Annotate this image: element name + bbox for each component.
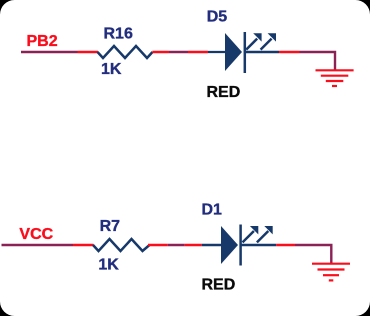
LED D5 light arrow 2 shaft [261, 39, 272, 50]
LED D5 anode pin stub [188, 51, 208, 53]
ground (top circuit) [316, 70, 354, 86]
LED D5 triangle [225, 33, 242, 71]
LED D1 triangle [221, 226, 238, 264]
LED D1 light arrow 2 shaft [257, 231, 268, 242]
LED D5 cathode bar [244, 32, 247, 73]
svg-text:VCC: VCC [19, 226, 53, 243]
LED D5 light arrow 1 head [253, 33, 261, 41]
LED D5 light arrow 1 shaft [246, 39, 257, 50]
LED D1 light arrow 1 shaft [243, 231, 254, 242]
LED D5 cathode pin stub [279, 51, 300, 53]
wire R16 to D5 [169, 51, 188, 53]
resistor R16 zigzag body [98, 46, 153, 58]
resistor R7 [73, 218, 168, 274]
svg-text:RED: RED [202, 277, 236, 294]
screenshot rounded corner top-left [0, 0, 15, 14]
LED D1 anode lead [202, 244, 221, 247]
resistor R16 pin 1 stub [78, 51, 99, 53]
resistor R16 pin 2 stub [152, 51, 169, 53]
screenshot rounded corner bottom-right [356, 302, 370, 316]
LED D1 cathode bar [239, 225, 242, 266]
svg-text:D1: D1 [202, 202, 223, 219]
svg-text:1K: 1K [101, 61, 122, 78]
resistor R7 pin 2 stub [148, 244, 168, 246]
svg-text:1K: 1K [98, 257, 119, 274]
LED D1 [185, 202, 295, 294]
LED D5 [188, 9, 300, 101]
svg-text:R7: R7 [100, 218, 121, 235]
resistor R7 pin 1 stub [73, 244, 94, 246]
LED D5 anode lead [208, 51, 225, 53]
wire D5 to ground [300, 52, 336, 70]
LED D1 cathode lead [241, 244, 277, 247]
LED D1 anode pin stub [185, 244, 202, 246]
wire R7 to D1 [168, 244, 185, 246]
screenshot rounded corner top-right [356, 0, 370, 15]
wire PB2 to R16 [21, 51, 78, 53]
wire D1 to ground [295, 245, 331, 263]
LED D1 light arrow 2 head [264, 226, 272, 234]
svg-text:D5: D5 [207, 9, 228, 26]
wire VCC to R7 [2, 244, 74, 246]
resistor R16 [78, 26, 170, 79]
ground (bottom circuit) [312, 264, 350, 281]
svg-text:RED: RED [207, 84, 241, 101]
LED D1 cathode pin stub [276, 244, 295, 246]
LED D5 light arrow 2 head [268, 33, 276, 41]
svg-text:R16: R16 [104, 26, 133, 43]
LED D5 cathode lead [245, 51, 279, 54]
screenshot rounded corner bottom-left [0, 302, 15, 316]
svg-text:PB2: PB2 [27, 33, 58, 50]
LED D1 light arrow 1 head [250, 226, 258, 234]
resistor R7 zigzag body [93, 239, 150, 251]
